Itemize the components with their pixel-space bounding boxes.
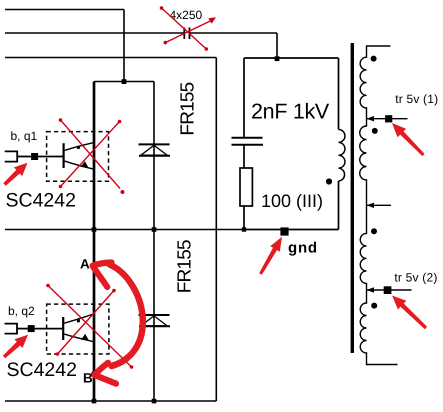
terminal square b,q2 — [28, 325, 35, 332]
red arrow at gnd — [259, 237, 282, 275]
junction dot bottom x bus — [92, 399, 97, 404]
capacitor C2 plates (2nF) — [232, 138, 264, 145]
red arrow at b,q1 — [3, 163, 27, 186]
wire vertical from bus2 down to 2nF box — [276, 33, 278, 58]
connector bracket b,q2 — [5, 324, 63, 334]
tap wire tr 5v (1) — [367, 118, 408, 120]
red cross cap arrowhead — [208, 17, 216, 24]
red cross Q2 end dots — [46, 284, 133, 369]
transformer primary winding — [339, 130, 345, 182]
wire bottom edge — [5, 400, 216, 402]
red cross over Q1 — [61, 120, 121, 189]
diode D2 FR155 — [139, 315, 171, 326]
wire bus 2 right of capacitor 4x250 — [190, 32, 277, 34]
junction dot bottom x diode branch — [152, 399, 157, 404]
svg-text:B: B — [83, 371, 93, 386]
transistor Q1 — [64, 143, 94, 170]
svg-text:b, q2: b, q2 — [8, 304, 35, 318]
wire bus 2 left of capacitor 4x250 — [5, 32, 184, 34]
wire vertical from bus1 to node on cell top — [123, 10, 125, 82]
resistor R1 100 (III) — [240, 168, 252, 206]
red cross cap end dots — [160, 6, 208, 51]
terminal square b,q1 — [31, 153, 38, 160]
primary phase dot — [326, 178, 332, 184]
wire top bus 1 — [5, 9, 124, 11]
red curved arrow head at A — [93, 263, 112, 288]
svg-text:A: A — [80, 257, 90, 272]
tap arrowheads — [367, 116, 375, 293]
svg-text:FR155: FR155 — [174, 240, 195, 293]
wire right edge of big box — [215, 58, 217, 402]
tap wire middle — [367, 204, 392, 206]
transformer secondary winding — [360, 46, 412, 365]
wire diode branch vertical — [153, 82, 155, 402]
connector bracket b,q1 — [5, 151, 63, 161]
Q1 emitter arrowhead — [81, 161, 89, 168]
Q1 collector pin mark — [77, 146, 80, 149]
red arrow at tr 5v (1) — [392, 123, 425, 156]
capacitor box 2nF outline — [244, 58, 339, 230]
svg-text:gnd: gnd — [288, 240, 318, 257]
capacitor C top (4x250) plates — [184, 28, 189, 40]
tap wire tr 5v (2) — [367, 289, 412, 291]
wire thick collector bus — [93, 82, 96, 402]
wire bus 3 — [5, 57, 216, 59]
red curved arrow head at B — [95, 363, 117, 384]
junction dot bus1/cell top — [122, 79, 127, 84]
svg-text:FR155: FR155 — [177, 82, 198, 135]
red cross Q1 end dots — [59, 118, 125, 194]
diode D1 FR155 — [139, 144, 171, 155]
junction dot on 2nF box top — [275, 56, 280, 61]
svg-text:b, q1: b, q1 — [11, 129, 38, 143]
Q2 collector pin mark — [77, 319, 80, 322]
svg-text:tr 5v (1): tr 5v (1) — [395, 92, 438, 106]
Q2 emitter arrowhead — [81, 334, 89, 341]
secondary phase dots — [371, 56, 377, 62]
wire gnd bus — [5, 229, 244, 231]
red curved arrow A to B body — [110, 265, 143, 367]
node B dot — [91, 371, 97, 377]
terminal square gnd — [280, 227, 288, 235]
dashed selection box Q1 — [47, 132, 109, 182]
transformer core — [351, 43, 354, 353]
transistor Q2 — [63, 314, 94, 342]
red cross over 4x250 cap — [162, 8, 212, 49]
wire cell1 top edge — [94, 81, 154, 83]
junction dot gnd x diode branch — [152, 227, 157, 232]
red cross over Q2 — [48, 286, 132, 368]
terminal square tr 5v (1) — [385, 115, 392, 122]
red arrow at b,q2 — [3, 335, 28, 359]
svg-text:2nF 1kV: 2nF 1kV — [251, 100, 330, 124]
node A dot — [91, 263, 97, 269]
svg-text:100 (III): 100 (III) — [261, 191, 323, 211]
terminal square tr 5v (2) — [384, 286, 392, 294]
svg-text:tr 5v (2): tr 5v (2) — [394, 270, 437, 284]
junction dot gnd x cap box corner — [242, 227, 246, 231]
svg-text:SC4242: SC4242 — [6, 189, 76, 211]
svg-text:SC4242: SC4242 — [7, 359, 77, 381]
junction dot gnd x bus — [92, 227, 97, 232]
dashed selection box Q2 — [47, 304, 109, 354]
red arrow at tr 5v (2) — [392, 296, 427, 330]
